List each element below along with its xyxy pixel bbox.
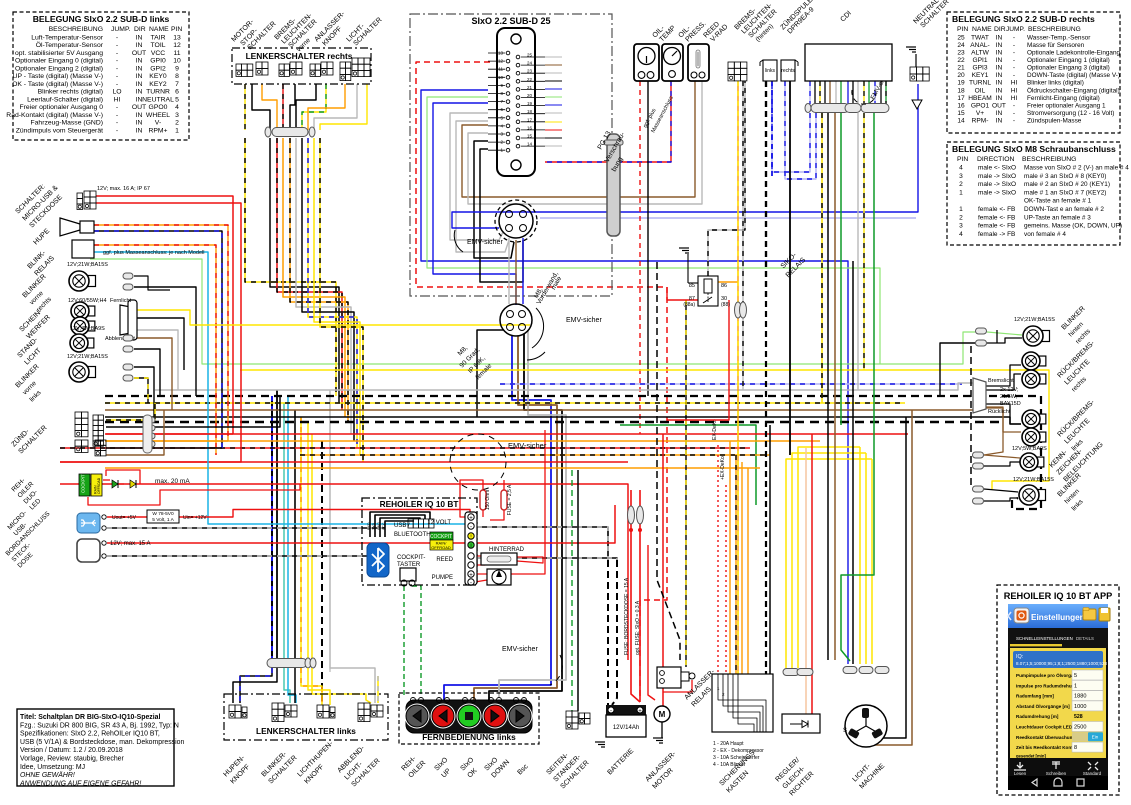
svg-text:IN: IN [136, 120, 143, 127]
kennzeichen feeds [984, 455, 1020, 458]
android nav [1008, 776, 1108, 790]
svg-text:Lesen: Lesen [1014, 771, 1027, 776]
svg-text:3: 3 [959, 223, 963, 230]
yellow body [1010, 648, 1106, 758]
svg-text:IN: IN [136, 112, 143, 119]
svg-text:KEY2: KEY2 [149, 81, 167, 88]
svg-text:-: - [116, 50, 118, 57]
svg-text:IN: IN [996, 110, 1003, 117]
svg-text:-: - [116, 58, 118, 65]
harness blackdash y422 [105, 421, 1000, 423]
svg-text:max. 20 mA: max. 20 mA [155, 478, 190, 485]
svg-text:-: - [116, 81, 118, 88]
svg-text:NAME: NAME [149, 26, 169, 33]
svg-text:S: S [843, 728, 847, 734]
wire red dashed OIL-TEMP down [639, 81, 641, 434]
box REHOILER IQ 10 BT [362, 498, 477, 585]
svg-text:9: 9 [175, 65, 179, 72]
usb anschluss wires [107, 516, 147, 518]
svg-text:12 VOLT: 12 VOLT [427, 520, 451, 526]
harness yellow-black y403 [105, 402, 905, 404]
svg-text:-: - [116, 104, 118, 111]
svg-text:gemeins. Masse (OK, DOWN, UP): gemeins. Masse (OK, DOWN, UP) [1024, 223, 1122, 230]
svg-text:-: - [610, 709, 612, 715]
bundle into lenkerschalter links region [271, 396, 273, 660]
harness red-black y448 [60, 447, 750, 449]
svg-text:OK - Taste (digital) (Masse V-: OK - Taste (digital) (Masse V-) [12, 81, 103, 88]
svg-text:Öl-Temperatur-Sensor: Öl-Temperatur-Sensor [36, 41, 104, 49]
hupe wires [94, 225, 228, 441]
NEUTRAL-SCHALTER [910, 67, 916, 74]
wire lavender long [540, 217, 916, 219]
svg-text:IN: IN [996, 42, 1003, 49]
svg-text:528: 528 [1074, 714, 1083, 720]
battery black wires [607, 560, 609, 705]
svg-text:FUSE = 2,5 A: FUSE = 2,5 A [507, 484, 513, 515]
svg-text:DOWN-Tast e an female # 2: DOWN-Tast e an female # 2 [1024, 206, 1104, 213]
harness green y425 [620, 425, 756, 505]
svg-text:male # 2 an SIxO # 20 (KEY1): male # 2 an SIxO # 20 (KEY1) [1024, 181, 1110, 188]
svg-text:IN: IN [996, 34, 1003, 41]
svg-text:Spezifikationen: SIxO 2.2, Reh: Spezifikationen: SIxO 2.2, RehOILer IQ10… [20, 731, 160, 738]
svg-text:WHEEL: WHEEL [146, 112, 170, 119]
svg-text:Rad-Kontakt (digital) (Masse V: Rad-Kontakt (digital) (Masse V-) [6, 112, 103, 119]
svg-text:17: 17 [957, 95, 965, 102]
cdi verticals down [772, 81, 810, 172]
bordsteckdose wires [107, 505, 615, 543]
connector lichthupen-knopf [317, 705, 323, 712]
svg-text:TURNL: TURNL [969, 80, 991, 87]
RUECK/BREMSLEUCHTE rechts [1036, 356, 1046, 366]
svg-text:ggf. plus Masseanschluss: je n: ggf. plus Masseanschluss: je nach Modell [103, 250, 205, 256]
harness black y417 [105, 417, 1021, 424]
svg-text:male -> SIxO: male -> SIxO [978, 189, 1016, 196]
M8 female connector [500, 304, 532, 336]
svg-text:2x 12V;: 2x 12V; [1000, 387, 1019, 393]
svg-text:Freier optionaler Ausgang 0: Freier optionaler Ausgang 0 [19, 104, 103, 111]
svg-text:(88a): (88a) [683, 302, 695, 308]
svg-text:RPM-: RPM- [972, 117, 989, 124]
regler to lichtmaschine yellows [852, 261, 854, 664]
svg-text:21/5W;: 21/5W; [1000, 394, 1018, 400]
svg-text:3: 3 [175, 112, 179, 119]
svg-text:-: - [1013, 42, 1015, 49]
EMV bundle female M8 down to Fernbedienung [444, 336, 551, 700]
svg-text:2500: 2500 [1074, 725, 1086, 731]
wire black M8 female shell to harness [477, 330, 504, 417]
svg-text:Masse für Sensoren: Masse für Sensoren [1027, 42, 1085, 49]
svg-text:23: 23 [527, 69, 533, 74]
CDI pins stubs [809, 81, 811, 104]
OIL-TEMP gauge [634, 44, 659, 81]
svg-text:8: 8 [1074, 745, 1077, 751]
wires M8 male to female [508, 238, 510, 304]
svg-text:12V;21W;BA15S: 12V;21W;BA15S [67, 354, 108, 360]
svg-text:LO: LO [112, 89, 121, 96]
svg-text:22: 22 [527, 77, 533, 82]
svg-text:GPI0: GPI0 [150, 58, 166, 65]
svg-text:Blinker links (digital): Blinker links (digital) [1027, 80, 1084, 87]
svg-text:18: 18 [527, 109, 533, 114]
svg-text:Impulse pro Radumdrehung: Impulse pro Radumdrehung [1016, 683, 1077, 688]
svg-text:1: 1 [959, 189, 963, 196]
svg-text:PIN: PIN [171, 26, 182, 33]
harness brown y410 [105, 409, 973, 411]
table BELEGUNG SIxO 2.2 SUB-D links [13, 12, 189, 140]
svg-text:Stromversorgung (12 - 16 Volt): Stromversorgung (12 - 16 Volt) [1027, 110, 1114, 117]
svg-text:19: 19 [527, 101, 533, 106]
svg-text:12V;21W;BA15S: 12V;21W;BA15S [1014, 317, 1055, 323]
svg-text:opt. FUSE: SIxO = 0,3 A: opt. FUSE: SIxO = 0,3 A [635, 600, 641, 655]
harness ora y468 [105, 467, 760, 469]
svg-text:1000: 1000 [1074, 704, 1086, 710]
svg-text:IN: IN [996, 57, 1003, 64]
SEITENSTANDER-SCHALTER [566, 711, 572, 717]
black dash verticals to fusebox [657, 262, 680, 660]
svg-text:TURNR: TURNR [146, 89, 170, 96]
svg-text:19: 19 [957, 80, 965, 87]
svg-text:female <- FB: female <- FB [978, 214, 1015, 221]
SUB-D right pins to PG13 stubs [545, 56, 562, 58]
svg-text:Bremslicht: Bremslicht [988, 378, 1014, 384]
fuse 2,5A [501, 490, 507, 510]
svg-text:5: 5 [175, 96, 179, 103]
svg-text:22: 22 [957, 57, 965, 64]
EX-DeKo dotted [717, 445, 719, 674]
svg-text:12V; max. 16 A; IP 67: 12V; max. 16 A; IP 67 [97, 186, 150, 192]
svg-text:TASTER: TASTER [397, 562, 421, 568]
svg-text:Blinker rechts (digital): Blinker rechts (digital) [38, 89, 103, 96]
seitenstaender wires [571, 470, 573, 711]
svg-text:+: + [469, 573, 473, 579]
svg-text:Pumpimpulse pro Ölvorgang: Pumpimpulse pro Ölvorgang [1016, 672, 1079, 678]
svg-text:1 - 20A Haupt: 1 - 20A Haupt [713, 741, 744, 747]
usb/bluetooth connector [408, 519, 413, 528]
terminal strip [465, 512, 477, 585]
svg-text:EMV-sicher: EMV-sicher [502, 646, 538, 653]
svg-text:opt. stabilisierter 5V Ausgang: opt. stabilisierter 5V Ausgang [15, 50, 103, 57]
svg-text:HBEAM: HBEAM [968, 95, 991, 102]
svg-text:EMV-sicher: EMV-sicher [467, 239, 503, 246]
svg-text:86: 86 [721, 283, 727, 289]
wire light green blinker vorne rechts [90, 259, 975, 364]
svg-text:REHOILER IQ 10 BT APP: REHOILER IQ 10 BT APP [1004, 591, 1112, 601]
svg-text:Einstellungen: Einstellungen [1031, 613, 1085, 622]
table BELEGUNG SIxO 2.2 SUB-D rechts [947, 12, 1120, 133]
svg-text:Leerlauf-Schalter (digital): Leerlauf-Schalter (digital) [27, 96, 103, 103]
svg-text:-: - [1013, 102, 1015, 109]
blinker hinten rechts feed [940, 343, 975, 396]
svg-text:REHOILER IQ 10 BT: REHOILER IQ 10 BT [380, 499, 459, 509]
svg-text:IN: IN [136, 89, 143, 96]
battery red feeds with fuses [631, 490, 640, 702]
svg-text:GPI2: GPI2 [150, 65, 166, 72]
svg-text:8: 8 [175, 73, 179, 80]
svg-text:NEUTRAL: NEUTRAL [142, 96, 174, 103]
svg-text:M: M [659, 710, 666, 719]
harness black-white y396 [105, 396, 1041, 509]
svg-text:female -> FB: female -> FB [978, 231, 1015, 238]
svg-text:1: 1 [1074, 683, 1077, 689]
svg-text:GPI3: GPI3 [972, 65, 987, 72]
REED V-RAD [688, 44, 709, 81]
brown black hook lichtmaschine [868, 410, 912, 745]
box SIxO 2.2 SUB-D 25 [410, 14, 612, 296]
svg-text:EMV-sicher: EMV-sicher [508, 441, 547, 450]
svg-text:85: 85 [689, 283, 695, 289]
svg-text:USB /: USB / [394, 523, 410, 529]
red wires usb switch [96, 196, 233, 434]
svg-text:ANWENDUNG AUF EIGENE GEFAHR!: ANWENDUNG AUF EIGENE GEFAHR! [19, 780, 141, 787]
svg-text:IN: IN [136, 58, 143, 65]
table BELEGUNG SIxO M8 Schraubanschluss [947, 142, 1120, 245]
svg-text:COCKPIT: COCKPIT [430, 534, 452, 540]
svg-text:13: 13 [498, 51, 504, 56]
RUECK/BREMSLEUCHTE links [1036, 414, 1046, 424]
svg-text:-: - [116, 65, 118, 72]
svg-text:Standard: Standard [1083, 771, 1102, 776]
svg-text:24: 24 [957, 42, 965, 49]
svg-text:OFFROAD: OFFROAD [97, 477, 101, 494]
svg-text:BELEGUNG SIxO 2.2 SUB-D links: BELEGUNG SIxO 2.2 SUB-D links [33, 14, 170, 24]
svg-text:2: 2 [959, 214, 963, 221]
connector Licht-Schalter [340, 62, 345, 68]
svg-text:12V; max. 15 A: 12V; max. 15 A [110, 541, 150, 547]
svg-text:Uout= +5V: Uout= +5V [112, 515, 137, 521]
ground bottom [595, 741, 605, 743]
svg-text:10: 10 [173, 58, 181, 65]
svg-text:16: 16 [957, 102, 965, 109]
svg-text:IN: IN [996, 72, 1003, 79]
svg-text:-: - [116, 127, 118, 134]
CDI box [805, 44, 892, 81]
svg-text:Fahrzeug-Masse (GND): Fahrzeug-Masse (GND) [30, 120, 103, 127]
svg-text:Titel: Schaltplan DR BIG-SIxO-: Titel: Schaltplan DR BIG-SIxO-IQ10-Spezi… [20, 714, 160, 721]
LICHTMASCHINE [845, 705, 887, 747]
svg-text:(88): (88) [721, 302, 730, 308]
svg-text:IQ:: IQ: [1016, 654, 1024, 660]
svg-text:IN: IN [996, 95, 1003, 102]
svg-text:JUMP.: JUMP. [111, 26, 131, 33]
svg-text:USB (5 V/1A) & Bordsteckdose,: USB (5 V/1A) & Bordsteckdose, man. Dekom… [20, 739, 184, 746]
red dashed box wire around SUB-D [416, 62, 667, 700]
svg-text:IN: IN [996, 50, 1003, 57]
svg-text:W 78-5V0: W 78-5V0 [152, 511, 174, 517]
svg-text:+: + [638, 709, 642, 715]
svg-text:BLUETOOTH: BLUETOOTH [394, 532, 431, 538]
svg-text:12V/14Ah: 12V/14Ah [613, 725, 639, 731]
svg-text:Version / Datum: 1.2 / 20.09.2: Version / Datum: 1.2 / 20.09.2018 [20, 747, 123, 754]
svg-text:KEY1: KEY1 [972, 72, 989, 79]
relay SIKO-RELAIS [698, 276, 718, 306]
svg-text:BELEGUNG SIxO M8 Schraubanschl: BELEGUNG SIxO M8 Schraubanschluss [952, 144, 1116, 154]
wire 150ohm fuse to rehoiler [460, 480, 483, 517]
PG 13 Verschraubung [607, 134, 620, 236]
siko relais wires [667, 287, 698, 300]
wire red-blue OIL-PRESS [545, 81, 671, 162]
svg-text:3: 3 [959, 173, 963, 180]
svg-text:12V;60/55W;H4: 12V;60/55W;H4 [68, 298, 107, 304]
svg-text:ALTW: ALTW [971, 50, 990, 57]
svg-text:-: - [116, 120, 118, 127]
svg-text:-: - [1013, 65, 1015, 72]
svg-text:23: 23 [957, 50, 965, 57]
connector Bremsleuchtenschalter vorne [279, 64, 284, 70]
LED diodes [112, 480, 118, 488]
Zuendspule links [763, 60, 777, 81]
OIL-PRESS gauge [662, 44, 683, 81]
svg-text:11: 11 [173, 50, 180, 57]
standlicht wires [134, 338, 172, 410]
svg-text:TOIL: TOIL [151, 42, 166, 49]
connector Motor-Stop-Schalter [236, 64, 242, 70]
svg-text:15: 15 [527, 134, 533, 139]
svg-text:V+: V+ [976, 110, 984, 117]
svg-text:-: - [1013, 34, 1015, 41]
wire light green SUB-D loop [427, 97, 880, 364]
svg-text:Abstand Ölvorgänge [m]: Abstand Ölvorgänge [m] [1016, 703, 1070, 709]
rehoiler to pumpe [475, 573, 487, 575]
svg-text:21: 21 [957, 65, 965, 72]
anlasser red [662, 434, 664, 706]
svg-text:IN: IN [996, 80, 1003, 87]
svg-text:Freier optionaler Ausgang 1: Freier optionaler Ausgang 1 [1027, 102, 1106, 109]
svg-text:male -> SIxO: male -> SIxO [978, 181, 1016, 188]
svg-text:male # 1 an SIxO # 7 (KEY2): male # 1 an SIxO # 7 (KEY2) [1024, 189, 1106, 196]
svg-text:12: 12 [173, 42, 181, 49]
svg-text:HI: HI [1011, 80, 1018, 87]
harness yellow y370 [240, 370, 1049, 489]
peach wire [805, 448, 807, 714]
REGLER/GLEICHRICHTER [782, 714, 820, 733]
svg-text:Optionaler Eingang 3 (digital): Optionaler Eingang 3 (digital) [1027, 65, 1110, 72]
svg-text:DIR: DIR [994, 26, 1006, 33]
svg-text:-: - [116, 112, 118, 119]
svg-text:+: + [469, 516, 473, 522]
connector blinker-schalter [272, 703, 278, 709]
svg-text:IN: IN [996, 65, 1003, 72]
svg-text:IN: IN [996, 117, 1003, 124]
svg-text:Schreiben: Schreiben [1046, 771, 1067, 776]
svg-text:12V;5W;BA9S: 12V;5W;BA9S [1012, 446, 1047, 452]
svg-text:KEY0: KEY0 [149, 73, 167, 80]
svg-text:female <- FB: female <- FB [978, 223, 1015, 230]
svg-text:-: - [1013, 110, 1015, 117]
box LENKERSCHALTER rechts [232, 48, 371, 84]
connector Bremsleuchtenschalter hinten [728, 62, 734, 68]
svg-text:HI: HI [1011, 95, 1018, 102]
svg-text:17: 17 [527, 117, 533, 122]
blinker vorne rechts black [134, 276, 170, 290]
svg-text:Optionaler Eingang 2 (digital): Optionaler Eingang 2 (digital) [15, 65, 103, 72]
svg-text:Optionale Ladekontrolle-Eingan: Optionale Ladekontrolle-Eingang [1027, 50, 1121, 57]
svg-text:4: 4 [175, 104, 179, 111]
svg-text:DIR: DIR [134, 26, 146, 33]
svg-text:IN: IN [136, 65, 143, 72]
W78-5V0 regulator [147, 510, 179, 523]
wire black OIL-TEMP [647, 81, 649, 396]
title block [17, 709, 174, 786]
svg-text:5: 5 [1074, 673, 1077, 679]
svg-text:Fzg.: Suzuki DR 800 BIG, SR 43: Fzg.: Suzuki DR 800 BIG, SR 43 A, Bj. 19… [20, 722, 179, 729]
ANLASSER-RELAIS [657, 667, 681, 688]
pumpe [487, 569, 511, 585]
svg-text:-: - [470, 581, 472, 587]
svg-text:IN: IN [136, 42, 143, 49]
svg-text:+EX-DeKo: +EX-DeKo [720, 456, 726, 480]
svg-text:4: 4 [959, 165, 963, 172]
wire gray SUB-D to M8 [450, 113, 503, 240]
svg-text:6: 6 [175, 89, 179, 96]
svg-text:13: 13 [173, 34, 181, 41]
svg-text:150 Ohm: 150 Ohm [485, 490, 491, 511]
svg-text:2: 2 [175, 120, 179, 127]
wire black2 SUB-D big L [480, 149, 523, 282]
wire blue2 SUB-D [433, 103, 516, 305]
svg-text:gesendet [min]: gesendet [min] [1016, 754, 1046, 759]
box FERNBEDIENUNG links [399, 693, 539, 744]
svg-text:IN: IN [136, 127, 143, 134]
svg-text:-: - [1013, 50, 1015, 57]
svg-text:PIN: PIN [957, 156, 968, 163]
svg-text:DOWN-Taste (digital) (Masse V-: DOWN-Taste (digital) (Masse V-) [1027, 72, 1120, 79]
svg-text:Radumfang [mm]: Radumfang [mm] [1016, 694, 1054, 699]
svg-text:von female # 4: von female # 4 [1024, 231, 1066, 238]
svg-text:Uin= +12V: Uin= +12V [183, 515, 207, 521]
svg-text:IN: IN [136, 34, 143, 41]
svg-text:COCKPIT-: COCKPIT- [397, 555, 425, 561]
svg-text:BESCHREIBUNG: BESCHREIBUNG [49, 26, 103, 33]
svg-text:V-: V- [155, 120, 161, 127]
svg-text:GPO0: GPO0 [149, 104, 168, 111]
svg-text:Reedkontakt Überwachung: Reedkontakt Überwachung [1016, 734, 1075, 740]
bundle down + staircase [245, 138, 336, 396]
harness lavender y384 [500, 383, 962, 385]
capsule connector bundle [272, 128, 308, 137]
svg-text:GPI1: GPI1 [972, 57, 987, 64]
svg-text:Optionaler Eingang 0 (digital): Optionaler Eingang 0 (digital) [15, 58, 103, 65]
svg-text:12V;21W;BA15S: 12V;21W;BA15S [67, 262, 108, 268]
connector Anlasser-Knopf [310, 64, 315, 70]
svg-text:links: links [765, 68, 776, 74]
ANLASSER-MOTOR [654, 706, 670, 722]
svg-text:RPM+: RPM+ [148, 127, 167, 134]
svg-text:BELEGUNG SIxO 2.2 SUB-D rechts: BELEGUNG SIxO 2.2 SUB-D rechts [952, 14, 1095, 24]
svg-text:IN: IN [136, 81, 143, 88]
svg-text:2: 2 [959, 181, 963, 188]
svg-text:Rücklicht: Rücklicht [988, 409, 1011, 415]
svg-text:25: 25 [957, 34, 965, 41]
green dash taster to fernbedienung [403, 586, 405, 697]
bluetooth logo [367, 543, 389, 577]
harness orange2 y455 [300, 454, 770, 456]
svg-text:EX-DeKo: EX-DeKo [712, 419, 718, 440]
svg-text:IN: IN [136, 73, 143, 80]
svg-text:Zündimpuls vom Steuergerät: Zündimpuls vom Steuergerät [16, 127, 103, 134]
svg-text:FUSE: BORDSTECKDOSE = 15 A: FUSE: BORDSTECKDOSE = 15 A [624, 577, 630, 655]
yellow bundle to regler [786, 459, 872, 668]
blinker vorne links [134, 367, 154, 417]
svg-text:HI: HI [114, 96, 121, 103]
svg-text:FERNBEDIENUNG links: FERNBEDIENUNG links [422, 732, 516, 742]
svg-text:20: 20 [527, 93, 533, 98]
svg-text:male <- SIxO: male <- SIxO [978, 165, 1016, 172]
svg-text:Fernlicht: Fernlicht [110, 298, 132, 304]
svg-text:UP-Taste an female # 3: UP-Taste an female # 3 [1024, 214, 1091, 221]
svg-text:Zündspulen-Masse: Zündspulen-Masse [1027, 117, 1082, 124]
DB25 connector [497, 28, 535, 176]
anlasser relais wires [685, 300, 687, 667]
